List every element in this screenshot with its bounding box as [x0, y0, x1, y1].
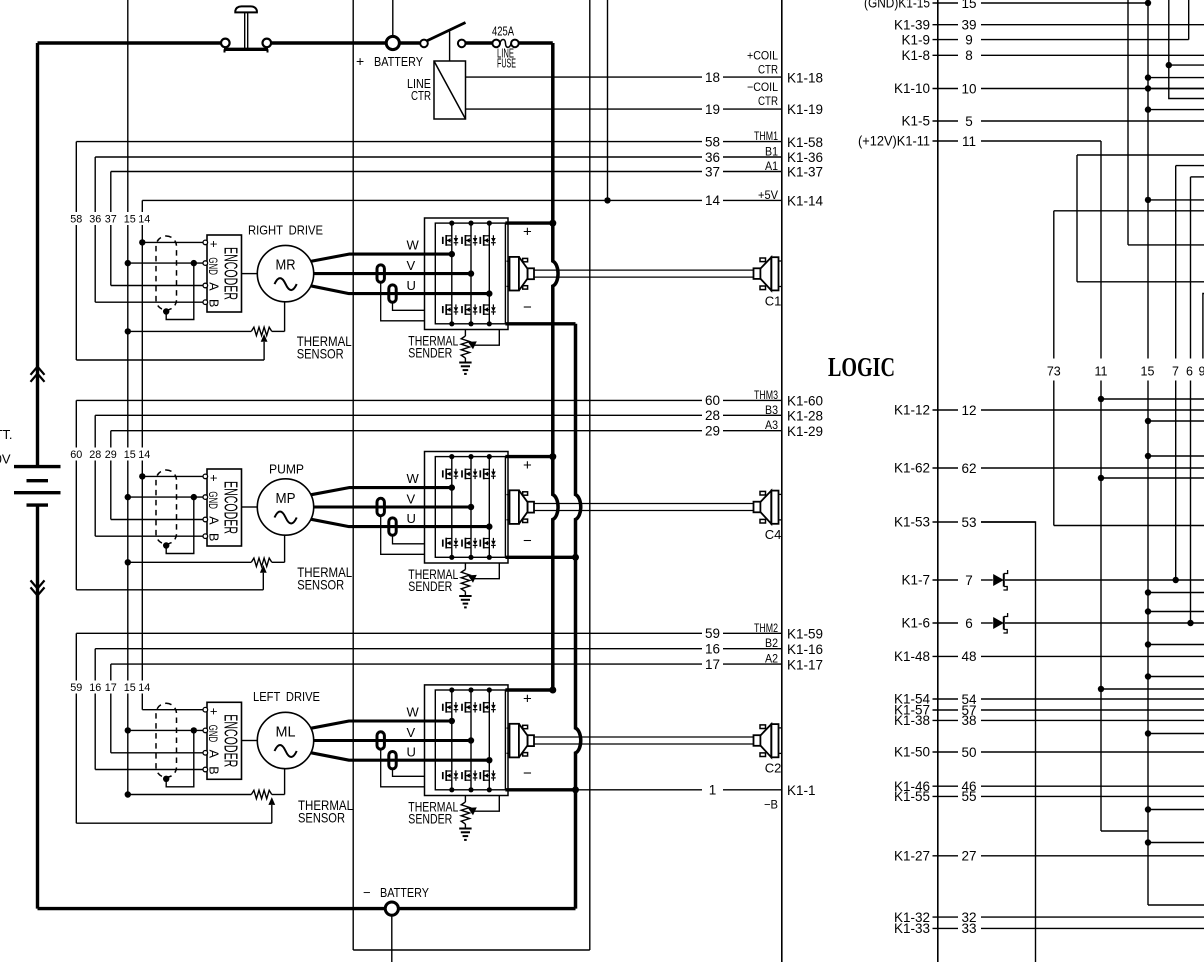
encoder pin GND ML [203, 728, 208, 733]
wire K1-14 (+5V) [142, 199, 702, 201]
wire encoder to motor ML [242, 740, 258, 742]
wire + rail MP [505, 455, 552, 458]
junction 15 column / encoder GND ML [125, 727, 131, 733]
key switch S1 right contact [263, 39, 272, 48]
svg-text:C1: C1 [765, 293, 782, 308]
encoder pin A MR [203, 283, 208, 288]
svg-text:GND: GND [206, 725, 220, 743]
svg-text:29: 29 [705, 424, 720, 439]
svg-text:K1-1: K1-1 [787, 783, 816, 798]
svg-text:K1-8: K1-8 [901, 48, 930, 63]
connector C4 module side [507, 494, 510, 496]
wire K1-32 net 32 [933, 916, 959, 918]
motor MP AC tilde [275, 512, 297, 524]
svg-text:SENDER: SENDER [408, 578, 452, 594]
junction + bus / ML bridge [549, 687, 556, 694]
wire K1-19 -COIL CTR from contactor coil [466, 108, 703, 110]
wire - battery stub to bottom edge [391, 915, 393, 962]
wire V sensor signal ML [381, 749, 425, 787]
wire K1-16 (B2) [95, 648, 702, 650]
encoder pin B ML [203, 767, 208, 772]
motor MR AC tilde [275, 278, 297, 290]
cable C2 [534, 736, 754, 738]
power section boundary bottom [353, 949, 590, 951]
MOSFET Q-top-3 MR [479, 237, 481, 244]
wire K1-38 net 38 [933, 719, 959, 721]
bridge inner frame MP [435, 457, 505, 558]
svg-text:0V: 0V [0, 452, 11, 467]
connector K1 right boundary line (LOGIC) [937, 0, 939, 962]
svg-text:K1-16: K1-16 [787, 642, 823, 657]
svg-text:6: 6 [1186, 365, 1193, 379]
wire K1-27 net 27 [933, 855, 959, 857]
svg-text:6: 6 [965, 616, 973, 631]
bridge leg 1 ML [451, 690, 453, 790]
svg-text:16: 16 [705, 642, 720, 657]
thermal sender wiper ML [468, 807, 477, 815]
svg-text:RIGHT DRIVE: RIGHT DRIVE [248, 223, 323, 238]
svg-text:ENCODER: ENCODER [220, 481, 240, 534]
svg-text:A1: A1 [765, 159, 778, 173]
column 15 bottom rail to right edge [1148, 904, 1204, 906]
wire K1-60 (THM3) [76, 399, 702, 401]
wire - rail MP [505, 556, 575, 559]
svg-text:36: 36 [705, 150, 720, 165]
svg-text:K1-38: K1-38 [894, 713, 930, 728]
svg-text:−: − [363, 885, 371, 900]
svg-text:K1-59: K1-59 [787, 627, 823, 642]
wire K1-59 (THM2) [76, 632, 702, 634]
junction + bus / MP bridge [549, 453, 556, 460]
encoder pin A MP [203, 517, 208, 522]
connector C2 harness side [754, 735, 761, 746]
connector C1 module side [507, 260, 510, 262]
svg-text:SENSOR: SENSOR [297, 576, 344, 592]
svg-text:W: W [407, 471, 420, 486]
MOSFET Q-bot-1 ML [442, 772, 444, 779]
svg-text:SENDER: SENDER [408, 811, 452, 827]
bridge leg 1 MP [451, 457, 453, 558]
svg-text:10: 10 [961, 81, 976, 96]
svg-text:A: A [207, 516, 221, 525]
svg-text:15: 15 [961, 0, 976, 11]
contactor blade [427, 23, 466, 42]
thermal sensor resistor MP [251, 558, 271, 566]
svg-text:K1-12: K1-12 [894, 403, 930, 418]
ground symbol ML [459, 828, 471, 830]
svg-text:GND: GND [206, 491, 220, 509]
wire encoder to motor MR [242, 273, 258, 275]
wire K1-18 +COIL CTR from contactor coil [466, 76, 703, 78]
wire column 36 encoder B MR [94, 157, 96, 212]
MOSFET Q-bot-3 ML [479, 772, 481, 779]
thermal sender wiper MR [468, 341, 477, 349]
tap wire y=611.5 from column x=1148.0 to right edge [1145, 608, 1151, 614]
svg-text:CTR: CTR [758, 63, 778, 77]
connector C2 module side [507, 727, 510, 729]
bridge leg 1 MR [451, 223, 453, 324]
wire K1-33 net 33 [933, 927, 959, 929]
MOSFET Q-bot-3 MP [479, 540, 481, 547]
thermistor line MR [125, 328, 131, 334]
svg-text:−COIL: −COIL [747, 80, 778, 94]
svg-text:K1-37: K1-37 [787, 165, 823, 180]
svg-text:K1-55: K1-55 [894, 789, 930, 804]
svg-text:K1-53: K1-53 [894, 515, 930, 530]
cable shield capsule MR [156, 236, 177, 310]
svg-text:50: 50 [961, 745, 976, 760]
svg-text:B1: B1 [765, 145, 778, 159]
contactor LINE CTR box [434, 61, 466, 119]
encoder pin B MP [203, 534, 208, 539]
MOSFET Q-top-3 ML [479, 704, 481, 711]
wire + rail MR [505, 221, 552, 224]
current sensor V phase MP [377, 498, 384, 515]
svg-text:MR: MR [276, 257, 296, 274]
routing rail y281.8 to right edge [1077, 281, 1204, 283]
current sensor V phase MR [377, 265, 384, 282]
wire K1-1 -B from - bus [576, 789, 703, 791]
svg-text:K1-48: K1-48 [894, 649, 930, 664]
MOSFET bridge module box MP [425, 452, 509, 564]
svg-text:THM2: THM2 [754, 621, 778, 635]
tap wire y=399.0 from column x=1101.0 to right edge [1098, 396, 1104, 402]
wire encoder + (14) row ML [142, 709, 205, 711]
svg-text:28: 28 [89, 449, 101, 461]
svg-text:29: 29 [105, 449, 117, 461]
battery BT1 plates [14, 465, 61, 468]
junction U leg ML [486, 757, 492, 763]
svg-text:17: 17 [705, 657, 720, 672]
wire K1-62 net 62 [933, 467, 959, 469]
svg-text:53: 53 [961, 515, 976, 530]
svg-text:W: W [407, 705, 420, 720]
bus battery + left vertical [36, 43, 39, 467]
svg-text:K1-19: K1-19 [787, 102, 823, 117]
wire thermal sensor feed MR [76, 359, 264, 361]
wire phase U ML [311, 753, 490, 761]
svg-text:14: 14 [705, 193, 721, 208]
encoder pin A ML [203, 751, 208, 756]
column 73 vertical [1053, 211, 1055, 359]
svg-text:K1-28: K1-28 [787, 409, 823, 424]
diode on K1-7 [993, 574, 1004, 586]
svg-text:K1-17: K1-17 [787, 657, 823, 672]
svg-text:THM3: THM3 [754, 388, 778, 402]
wire K1-7 net 7 [933, 579, 959, 581]
tap wire y=809.5 from column x=1148.0 to right edge [1145, 806, 1151, 812]
thermal sender resistor MR [464, 330, 466, 337]
wire K1-6 net 6 [933, 622, 959, 624]
thermal sensor wiper arrow ML [268, 797, 275, 805]
MOSFET Q-bot-2 ML [461, 772, 463, 779]
motor MR circle [257, 245, 313, 301]
column 73 bottom rail to right edge [1054, 525, 1204, 527]
svg-text:37: 37 [105, 214, 117, 226]
shield drain dot MR [163, 308, 169, 314]
MOSFET Q-bot-2 MP [461, 540, 463, 547]
current sensor V phase ML [377, 732, 384, 749]
svg-text:18: 18 [705, 70, 720, 85]
bridge inner frame ML [435, 690, 505, 790]
svg-text:8: 8 [965, 48, 973, 63]
junction + bus / MR bridge [549, 220, 556, 227]
wire shield drain ML [166, 730, 194, 786]
svg-text:C2: C2 [765, 760, 782, 775]
wire shield drain MR [166, 263, 194, 319]
junction W leg MP [449, 484, 455, 490]
wire column 59 thermal sensor feed ML [75, 633, 77, 680]
wire column 60 thermal sensor feed MP [75, 400, 77, 447]
svg-text:(GND)K1-15: (GND)K1-15 [864, 0, 930, 11]
svg-text:+: + [207, 708, 221, 715]
thermistor line MP [125, 559, 131, 565]
junction W leg MR [449, 251, 455, 257]
svg-text:K1-50: K1-50 [894, 745, 930, 760]
tap wire y=77.6 from column x=1148.0 to right edge [1145, 74, 1151, 80]
junction 14 column / encoder + MP [139, 473, 145, 479]
encoder pin + ML [203, 707, 208, 712]
svg-text:60: 60 [70, 449, 82, 461]
wire phase V MR [314, 272, 471, 275]
power section boundary left vertical [352, 0, 354, 950]
thermal sensor wiper arrow MP [260, 565, 267, 573]
wire column 28 encoder B MP [94, 415, 96, 447]
routing rail y65.1 with junction [1166, 62, 1172, 68]
wire K1-39 net 39 [933, 24, 959, 26]
wire phase W ML [311, 721, 452, 728]
wire motor to thermal sensor MR [284, 302, 286, 332]
svg-text:36: 36 [89, 214, 101, 226]
bridge leg 3 MR [488, 223, 490, 324]
svg-text:+: + [356, 53, 364, 69]
svg-text:59: 59 [70, 682, 82, 694]
svg-text:9: 9 [1199, 365, 1204, 379]
svg-text:W: W [407, 238, 420, 253]
cable shield capsule ML [156, 703, 177, 777]
MOSFET Q-bot-1 MP [442, 540, 444, 547]
wire K1-37 (A1) [111, 171, 702, 173]
svg-text:28: 28 [705, 408, 720, 423]
key switch S1 stem [244, 13, 246, 49]
bus - battery vertical (hops at C4 and C2 cables) [576, 324, 581, 909]
wire column 58 thermal sensor feed MR [75, 142, 77, 212]
svg-text:K1-62: K1-62 [894, 461, 930, 476]
wire U sensor signal ML [393, 769, 425, 776]
svg-text:TT.: TT. [0, 427, 13, 442]
svg-text:33: 33 [961, 921, 976, 936]
wire phase V ML [314, 739, 471, 742]
net 53 vertical to bottom edge [981, 522, 1036, 962]
net 11 elbow to column 15 bottom [1101, 830, 1148, 832]
wire shield drain MP [166, 497, 194, 553]
svg-text:K1-10: K1-10 [894, 81, 930, 96]
motor ML circle [257, 712, 313, 768]
wire column 16 encoder B ML [94, 649, 96, 681]
thermal sender resistor MP [464, 563, 466, 570]
svg-text:GND: GND [206, 257, 220, 275]
power section boundary right vertical [589, 0, 591, 950]
svg-text:SENSOR: SENSOR [297, 346, 344, 362]
continuation chevrons up [31, 367, 45, 375]
thermal sensor resistor ML [251, 790, 271, 798]
wire phase U MP [311, 519, 490, 526]
svg-text:7: 7 [965, 573, 973, 588]
svg-text:+: + [207, 474, 221, 481]
svg-text:−: − [523, 299, 532, 316]
svg-text:73: 73 [1047, 365, 1061, 379]
bridge leg 2 MP [470, 457, 472, 558]
svg-text:LOGIC: LOGIC [828, 351, 895, 382]
junction U leg MP [486, 523, 492, 529]
svg-text:SENSOR: SENSOR [298, 809, 345, 825]
shield drain dot MP [163, 542, 169, 548]
key switch S1 contact bar [224, 48, 268, 51]
diode on K1-6 [993, 617, 1004, 629]
svg-text:K1-9: K1-9 [901, 32, 930, 47]
junction K1-7 / column 7 [1173, 577, 1179, 583]
bridge leg 3 MP [488, 457, 490, 558]
wire 14 encoder +5V column [141, 200, 143, 212]
svg-text:PUMP: PUMP [269, 462, 304, 477]
svg-text:A2: A2 [765, 652, 778, 666]
svg-text:K1-29: K1-29 [787, 424, 823, 439]
svg-text:−: − [523, 532, 532, 549]
column 7 vertical [1175, 166, 1177, 359]
tap wire y=689.0 from column x=1101.0 to right edge [1098, 686, 1104, 692]
thermistor line ML [125, 791, 131, 797]
wire - battery bottom [38, 907, 576, 910]
svg-text:B: B [207, 299, 221, 307]
node - BATTERY terminal [385, 902, 398, 915]
MOSFET Q-top-1 ML [442, 704, 444, 711]
svg-text:7: 7 [1172, 365, 1179, 379]
wire encoder + (14) row MP [142, 475, 205, 477]
fuse 425A left terminal [492, 40, 500, 48]
tap wire y=644.5 from column x=1148.0 to right edge [1145, 641, 1151, 647]
MOSFET Q-top-3 MP [479, 470, 481, 477]
svg-text:38: 38 [961, 713, 976, 728]
MOSFET Q-top-1 MR [442, 237, 444, 244]
MOSFET bridge module box MR [425, 218, 509, 330]
thermal sensor wiper arrow MR [261, 334, 268, 342]
svg-text:ML: ML [276, 724, 296, 741]
bridge inner frame MR [435, 223, 505, 324]
MOSFET Q-top-2 MR [461, 237, 463, 244]
wire + rail ML [505, 688, 552, 691]
svg-text:K1-58: K1-58 [787, 135, 823, 150]
encoder pin + MP [203, 474, 208, 479]
wire - rail ML [505, 788, 575, 791]
svg-text:37: 37 [705, 164, 720, 179]
wire K1-12 net 12 [933, 409, 959, 411]
current sensor U phase ML [389, 752, 396, 769]
junction - bus / MP bridge [572, 554, 579, 561]
wire encoder + (14) row MR [142, 241, 205, 243]
MOSFET Q-bot-1 MR [442, 306, 444, 313]
routing vertical x1128 [1127, 0, 1129, 245]
column 6 top rail to right edge [1191, 176, 1204, 178]
bridge leg 3 ML [488, 690, 490, 790]
wire (GND)K1-15 net 15 [933, 2, 959, 4]
svg-text:55: 55 [961, 789, 976, 804]
tap wire y=592.5 from column x=1148.0 to right edge [1145, 589, 1151, 595]
tap wire y=421.0 from column x=1148.0 to right edge [1145, 418, 1151, 424]
wire K1-10 net 10 [933, 88, 959, 90]
thermal sensor resistor MR [251, 327, 271, 335]
junction net15 / column15 [1145, 0, 1151, 6]
svg-text:60: 60 [705, 393, 720, 408]
routing rail y155 to right edge [1077, 154, 1204, 156]
MOSFET Q-top-2 MP [461, 470, 463, 477]
svg-text:C4: C4 [765, 527, 782, 542]
wire column 37 encoder A MR [110, 172, 112, 213]
svg-text:19: 19 [705, 102, 720, 117]
junction 15 column / encoder GND MP [125, 494, 131, 500]
junction - bus / ML bridge and K1-1 [572, 786, 579, 793]
wire K1-48 net 48 [933, 655, 959, 657]
wire encoder GND (15) row MR [128, 262, 206, 264]
wire K1-5 net 5 [933, 120, 959, 122]
junction shield drain / encoder GND ML [191, 727, 197, 733]
cable C1 [534, 269, 754, 271]
bus + battery vertical (hops at C1 and C4 cables) [553, 43, 558, 690]
encoder pin GND MP [203, 495, 208, 500]
shield drain dot ML [163, 776, 169, 782]
junction U leg MR [486, 290, 492, 296]
svg-text:K1-6: K1-6 [901, 616, 930, 631]
wire K1-55 net 55 [933, 795, 959, 797]
connector C1 harness side [754, 268, 761, 279]
svg-text:−B: −B [764, 798, 778, 812]
svg-text:16: 16 [89, 682, 101, 694]
svg-text:SENDER: SENDER [408, 345, 452, 361]
thermal sender resistor ML [464, 796, 466, 803]
wire K1-36 (B1) [95, 156, 702, 158]
svg-text:+: + [523, 457, 532, 474]
wire motor to thermal sensor MP [284, 535, 286, 562]
svg-text:BATTERY: BATTERY [374, 54, 423, 69]
svg-text:−: − [523, 765, 532, 782]
bridge leg 2 ML [470, 690, 472, 790]
contactor main contact right [458, 40, 466, 48]
wire U sensor signal MR [393, 302, 425, 310]
MOSFET Q-bot-3 MR [479, 306, 481, 313]
junction shield drain / encoder GND MR [191, 260, 197, 266]
junction V leg MP [468, 504, 474, 510]
junction 15 column / encoder GND MR [125, 260, 131, 266]
tap wire y=88.5 from column x=1148.0 to right edge [1145, 85, 1151, 91]
wire K1-58 (THM1) [76, 141, 702, 143]
svg-text:+COIL: +COIL [747, 49, 778, 63]
junction K1-6 / column 6 [1187, 620, 1193, 626]
svg-text:48: 48 [961, 649, 976, 664]
routing vertical x1077 [1076, 155, 1078, 282]
tap wire y=733.5 from column x=1148.0 to right edge [1145, 730, 1151, 736]
column 73 top rail to right edge [1054, 210, 1204, 212]
svg-text:14: 14 [138, 682, 150, 694]
encoder pin B MR [203, 300, 208, 305]
tap wire y=478.0 from column x=1101.0 to right edge [1098, 475, 1104, 481]
svg-text:27: 27 [961, 849, 976, 864]
wire phase W MP [311, 488, 452, 495]
svg-text:K1-39: K1-39 [894, 17, 930, 32]
wire thermal sensor feed MP [76, 589, 263, 591]
bridge leg 2 MR [470, 223, 472, 324]
junction +5V vertical / K1-14 line [604, 197, 610, 203]
svg-text:17: 17 [105, 682, 117, 694]
wire encoder to motor MP [242, 506, 258, 508]
